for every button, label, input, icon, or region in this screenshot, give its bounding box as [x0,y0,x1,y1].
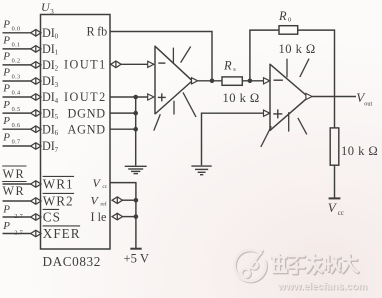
wire R0 to output column [298,30,335,128]
wire P0.6 [3,128,31,130]
wire WR1 row 0 [3,183,31,185]
svg-text:0.5: 0.5 [12,106,21,113]
label P0.4 [2,83,20,97]
node P0.3 diamond [31,78,41,85]
wire P0.1 [3,48,31,50]
junction Vref [134,198,139,203]
pin WR1 [43,176,75,191]
pin Vref label [91,194,107,208]
svg-text:CS: CS [43,210,61,225]
svg-text:AGND: AGND [68,122,106,136]
label P0.5 [2,99,20,113]
svg-text:7: 7 [55,146,59,154]
label WR external [2,166,26,181]
svg-text:s: s [233,66,236,73]
wire analog ground column [135,97,137,166]
svg-text:DI: DI [42,106,55,120]
svg-text:DI: DI [42,122,55,136]
svg-text:0: 0 [55,33,59,41]
op-amp1 power strokes [154,47,196,131]
wire P0.5 [3,112,31,114]
pin DI7 [42,139,59,154]
pin DI3 [42,74,59,89]
svg-text:0.4: 0.4 [12,90,21,97]
+5V supply terminal [130,248,141,250]
pin DI1 [42,42,59,57]
wire to R0 [250,30,279,81]
wire Rfb to feedback column [110,32,212,81]
node Ile diamond [112,213,122,220]
wire P0.4 [3,96,31,98]
svg-text:4: 4 [55,97,59,105]
junction AGND [133,127,138,132]
op-amp2 power strokes [261,59,309,147]
label R0 [278,9,292,24]
ground symbol (DAC grounds) [125,166,147,173]
wire P0.3 [3,80,31,82]
wire AGND [110,128,136,130]
svg-text:WR1: WR1 [43,177,74,192]
pin DI4 [42,90,59,105]
node P0.7 diamond [31,143,41,150]
svg-text:P: P [2,204,10,216]
node Vref diamond [112,197,122,204]
op-amp1 output arrow [192,78,198,84]
node XFER diamond [31,230,41,237]
pin DI0 [42,26,59,41]
wire Vref [123,199,136,201]
svg-text:P: P [2,132,10,144]
wire IOUT1 to opamp1 inverting input [121,63,148,65]
svg-text:P: P [2,35,10,47]
svg-text:IOUT1: IOUT1 [64,58,107,72]
svg-text:cc: cc [102,184,107,190]
svg-text:IOUT2: IOUT2 [64,90,107,104]
node IOUT1 diamond [111,61,121,68]
svg-text:R: R [278,9,287,23]
wire P0.7 [3,145,31,147]
label Vout [356,90,372,107]
svg-text:DGND: DGND [68,106,106,120]
pin WR2 [43,193,75,208]
label WR external [2,182,26,199]
svg-text:10 k Ω: 10 k Ω [341,144,378,158]
pin XFER [43,226,81,241]
ground symbol (opamp2 +) [191,166,211,175]
label Vcc [328,200,344,217]
label P0.0 [2,19,20,33]
node P0.1 diamond [31,46,41,53]
pin Vcc label [93,176,108,190]
op-amp1 plus sign [158,93,166,101]
svg-text:0.0: 0.0 [12,26,21,33]
svg-text:0.6: 0.6 [12,122,21,129]
label P0.6 [2,115,20,129]
svg-text:0.7: 0.7 [12,139,21,146]
svg-text:2.7: 2.7 [14,213,23,220]
label P0.2 [2,51,20,65]
svg-text:P: P [2,115,10,127]
node P0.5 diamond [31,110,41,117]
node P0.4 diamond [31,94,41,101]
wire CS row 2 [3,216,31,218]
designator U3 [41,0,54,16]
svg-text:DI: DI [42,74,55,88]
node P0.6 diamond [31,126,41,133]
svg-text:1: 1 [55,49,59,57]
node CS diamond [31,214,41,221]
node P0.2 diamond [31,62,41,69]
junction Rs/R0 [248,79,253,84]
pin DI6 [42,122,59,137]
wire P0.2 [3,64,31,66]
svg-text:10 k Ω: 10 k Ω [223,91,260,105]
svg-text:DI: DI [42,58,55,72]
node WR1 diamond [31,181,41,188]
svg-text:2.7: 2.7 [14,229,23,236]
label P0.7 [2,132,20,146]
arrowhead opamp2 non-inverting input [264,110,270,116]
svg-text:I le: I le [91,210,107,224]
svg-text:P: P [2,51,10,63]
svg-text:3: 3 [55,81,59,89]
op-amp U2B triangle [270,64,308,131]
svg-text:0.3: 0.3 [12,74,21,81]
svg-text:www.elecfans.com: www.elecfans.com [277,282,367,293]
wire XFER row 3 [3,233,31,235]
svg-text:XFER: XFER [43,226,81,241]
svg-text:R fb: R fb [87,24,108,38]
junction Ile [134,214,139,219]
svg-text:P: P [2,83,10,95]
wire IOUT2 to opamp1 non-inverting input [110,96,148,98]
arrowhead opamp1 non-inverting input [148,94,154,100]
svg-text:WR2: WR2 [43,194,74,209]
svg-text:10 k Ω: 10 k Ω [279,42,316,56]
svg-text:WR: WR [3,184,26,198]
arrowhead opamp1 inverting input [148,61,154,67]
Vcc supply terminal [329,197,341,199]
pin DI2 [42,58,59,73]
label P0.3 [2,67,20,81]
op-amp1 minus sign [158,62,165,64]
wire Rs to opamp2 inverting input [242,80,263,82]
svg-text:out: out [364,100,372,107]
op-amp2 plus sign [273,109,282,118]
label P0.1 [2,35,20,49]
arrowhead opamp2 inverting input [264,78,270,84]
svg-text:ref: ref [100,201,106,208]
wire P0.0 [3,32,31,34]
svg-text:0.1: 0.1 [12,42,21,49]
node WR2 diamond [31,198,41,205]
svg-text:DAC0832: DAC0832 [43,254,101,269]
svg-text:DI: DI [42,90,55,104]
junction feedback/output [210,79,215,84]
svg-text:cc: cc [338,209,344,217]
svg-text:5: 5 [55,113,59,121]
DAC0832 chip U3 body [41,15,111,250]
wire opamp2 non-inverting input to ground [202,113,264,165]
wire opamp1 output [198,80,222,82]
svg-text:DI: DI [42,26,55,40]
node P0.0 diamond [31,30,41,37]
op-amp2 minus sign [274,79,283,81]
label P2.7 external [2,220,23,236]
pin DI5 [42,106,59,121]
op-amp U2A triangle [155,46,192,115]
svg-text:P: P [2,19,10,31]
svg-text:+5 V: +5 V [124,251,149,265]
wire DGND [110,112,136,114]
label P2.7 external [2,204,23,220]
label Rs [223,58,236,73]
svg-text:0.2: 0.2 [12,58,21,65]
wire WR2 row 1 [3,200,31,202]
svg-text:DI: DI [42,42,55,56]
watermark logo [235,251,266,282]
wire Ile [123,216,136,218]
svg-text:2: 2 [55,65,59,73]
wire opamp2 output to Vout [312,96,356,98]
svg-text:P: P [2,67,10,79]
junction DGND [133,111,138,116]
junction IOUT2/ground column [133,95,138,100]
watermark text (stylized) [273,256,359,274]
svg-text:3: 3 [50,8,54,16]
wire resistor to Vcc terminal [334,165,336,198]
svg-text:DI: DI [42,139,55,153]
resistor 10k to Vcc [330,128,339,165]
svg-text:R: R [223,58,232,72]
svg-text:WR: WR [3,167,26,181]
pin CS [43,209,61,224]
svg-text:P: P [2,220,10,232]
op-amp2 output arrow [306,93,312,99]
resistor Rs [222,77,242,85]
resistor R0 [279,26,298,35]
wire Vcc to +5V column [110,183,136,249]
svg-text:6: 6 [55,129,59,137]
svg-text:P: P [2,99,10,111]
